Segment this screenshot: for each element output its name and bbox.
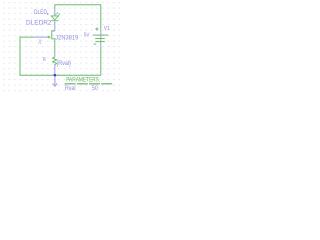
resistor R top pin bbox=[54, 52, 56, 57]
minus bbox=[94, 43, 97, 45]
V1 source body bbox=[93, 27, 108, 44]
svg-text:PARAMETERS:: PARAMETERS: bbox=[66, 77, 100, 84]
channel bbox=[51, 30, 53, 39]
svg-text:{Rval}: {Rval} bbox=[56, 60, 71, 67]
resistor R body bbox=[53, 57, 57, 66]
diode anode pin bbox=[54, 9, 56, 16]
resistor R bottom pin bbox=[54, 66, 56, 76]
svg-text:DLEDR2: DLEDR2 bbox=[26, 20, 52, 27]
V1 pin stubs bbox=[100, 29, 102, 36]
svg-text:V1: V1 bbox=[104, 26, 110, 32]
wire top: diode column to V1 column bbox=[55, 5, 101, 29]
wire gate-left-bottom bbox=[20, 37, 101, 75]
plates bbox=[93, 34, 108, 36]
plus bbox=[95, 28, 98, 30]
svg-text:50: 50 bbox=[92, 85, 98, 92]
svg-text:J2N3819: J2N3819 bbox=[55, 34, 79, 41]
svg-text:J1: J1 bbox=[38, 40, 42, 46]
gate arrowhead bbox=[48, 36, 51, 39]
gate pin (blue) bbox=[35, 36, 47, 38]
LED body D bbox=[51, 16, 58, 21]
diode cathode pin bbox=[54, 21, 56, 31]
underline bbox=[65, 83, 113, 85]
junction node bbox=[54, 74, 57, 77]
wire V1 bottom bbox=[100, 46, 102, 75]
svg-text:R: R bbox=[43, 57, 46, 63]
ground arrow symbol bbox=[53, 76, 58, 86]
source lead bbox=[52, 39, 55, 52]
gate line bbox=[47, 36, 49, 38]
drain lead bbox=[52, 30, 55, 32]
LED emission arrows bbox=[55, 13, 60, 17]
JFET J1 body bbox=[47, 30, 55, 51]
grid bbox=[0, 0, 120, 95]
svg-text:5V: 5V bbox=[84, 32, 90, 38]
svg-text:DLED: DLED bbox=[34, 9, 47, 16]
svg-text:Rval: Rval bbox=[65, 85, 76, 92]
